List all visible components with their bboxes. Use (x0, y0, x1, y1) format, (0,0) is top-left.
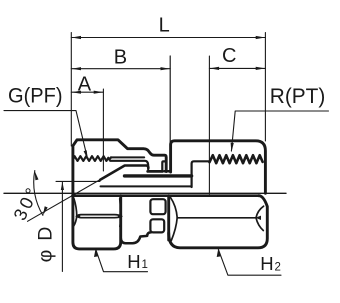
svg-text:H: H (260, 253, 273, 274)
extension left (70, 33, 72, 147)
arrow B left (72, 67, 82, 70)
arrow C left (210, 67, 220, 70)
cone seat 30deg thick (100, 166, 148, 180)
slit closure (164, 170, 170, 173)
extension A right (102, 89, 104, 171)
extension right (264, 33, 266, 142)
phiD line (61, 182, 63, 271)
body U1 outline top half (171, 141, 266, 194)
collar flat lower (150, 219, 164, 232)
svg-text:R(PT): R(PT) (270, 84, 326, 108)
arrow leader G (84, 150, 88, 160)
arrow A right (94, 91, 104, 94)
arrow arc top (35, 171, 39, 180)
collar flat upper (150, 199, 165, 214)
svg-text:2: 2 (275, 262, 281, 274)
arrow arc bottom (43, 206, 48, 215)
extension C left (208, 56, 210, 194)
neck profile (121, 232, 151, 243)
svg-text:G(PF): G(PF) (8, 83, 63, 107)
pocket bottom (148, 170, 163, 173)
30deg slant line (28, 166, 125, 222)
dimension B (71, 68, 170, 70)
30deg arc (34, 171, 43, 216)
svg-text:1: 1 (142, 259, 148, 271)
arrow H1 (94, 249, 98, 258)
arrow B right (161, 67, 171, 70)
inner bore line (101, 185, 192, 187)
R thread zigzag (210, 155, 263, 163)
nut N1 bore line (110, 161, 148, 170)
svg-text:B: B (114, 47, 127, 69)
leader R (231, 111, 328, 151)
arrow H2 (217, 249, 221, 258)
arrow phiD (61, 182, 64, 190)
arrow C right (256, 67, 266, 70)
dimension L (71, 37, 265, 39)
svg-text:C: C (222, 45, 236, 67)
extension B right (169, 56, 171, 142)
leader G (4, 111, 88, 159)
arrow L right (256, 36, 266, 39)
svg-text:φD: φD (35, 218, 57, 263)
nut N1 outline top half (73, 140, 166, 194)
G thread zigzag (74, 156, 112, 161)
arrow A left (72, 91, 82, 94)
body bore step (192, 161, 210, 187)
pocket right wall (162, 161, 166, 171)
sleeve neck line (125, 174, 192, 177)
30deg ref line (56, 180, 100, 182)
arrow leader R (231, 143, 234, 153)
dimension C (209, 67, 265, 69)
H2 band lens right (255, 216, 261, 220)
nut band lens left (75, 214, 80, 218)
nut hex band boundary (74, 199, 77, 226)
body H2 exterior bottom half (167, 196, 170, 240)
nut band lens right (118, 214, 123, 218)
svg-text:A: A (78, 74, 92, 96)
nut N1 exterior bottom half (73, 193, 121, 249)
leader H2 (218, 250, 281, 276)
leader H1 (96, 250, 148, 272)
dimension A (71, 91, 103, 93)
arrow L left (72, 36, 82, 39)
hex top line bottom half (73, 194, 259, 197)
svg-text:L: L (159, 15, 170, 37)
H2 band boundary (170, 197, 177, 240)
centerline (4, 192, 286, 194)
svg-text:H: H (127, 251, 140, 272)
nut N1 thread crest line (111, 156, 144, 158)
